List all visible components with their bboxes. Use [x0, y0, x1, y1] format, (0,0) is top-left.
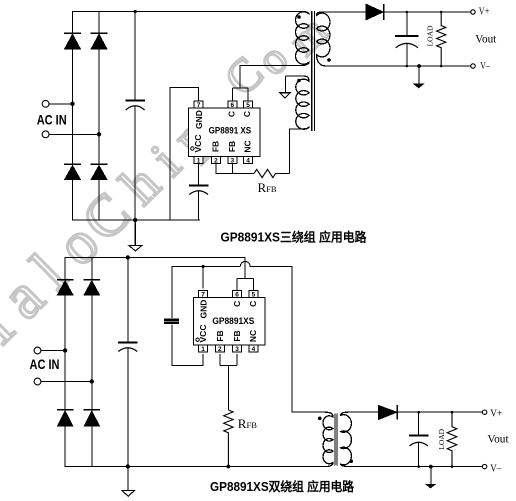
wire bridge right branch	[91, 258, 93, 467]
transformer T1 core	[312, 11, 315, 131]
wire bridge left branch	[72, 12, 74, 221]
wire AC upper	[49, 103, 73, 105]
AC input terminal lower	[42, 131, 49, 138]
AC input terminal lower (bottom circuit)	[34, 378, 41, 385]
node junction AC upper	[70, 102, 74, 106]
resistor RFB (bottom circuit)	[224, 410, 233, 467]
svg-text:NC: NC	[243, 140, 253, 152]
wire bridge right branch	[98, 12, 100, 221]
pin 7 (U2)	[199, 290, 208, 298]
svg-text:Vout: Vout	[475, 32, 497, 46]
node dot secondary polarity	[327, 58, 331, 62]
capacitor C3 output	[395, 12, 418, 66]
pin 2 (U2)	[215, 345, 224, 353]
svg-text:5: 5	[252, 291, 256, 298]
ground output (filled)	[414, 64, 423, 88]
pin1 marker circle	[191, 147, 194, 150]
pin 2	[211, 157, 220, 165]
wire GND pin7 (bottom)	[202, 267, 204, 289]
wire pins 5,6 junction (U2)	[237, 278, 253, 290]
capacitor C1 bulk filter	[125, 12, 145, 221]
wire AC upper	[41, 350, 65, 352]
pin 7	[194, 101, 203, 109]
svg-text:4: 4	[246, 158, 250, 165]
op-amp U2 GP8891XS body	[194, 297, 265, 345]
capacitor C5 VCC loop (bottom circuit)	[164, 267, 203, 366]
wire secondary to diode (bottom)	[348, 411, 379, 413]
svg-text:6: 6	[235, 291, 239, 298]
svg-text:Vout: Vout	[487, 432, 509, 446]
svg-text:GP8891XS: GP8891XS	[212, 316, 254, 327]
node junction	[63, 348, 67, 352]
svg-text:6: 6	[230, 102, 234, 109]
diode D7 top-right bridge2	[84, 280, 100, 295]
wire bottom rail	[73, 219, 200, 221]
ground bottom (open triangle)	[122, 467, 135, 497]
node dots output (bottom circuit)	[417, 411, 420, 414]
svg-text:3: 3	[235, 346, 239, 353]
wire FB pins junction	[216, 164, 254, 174]
diode D9 bottom-right bridge2	[84, 410, 100, 426]
transformer T2 primary winding	[323, 412, 333, 466]
diode D1 top-left of bridge	[64, 33, 81, 49]
svg-text:V–: V–	[490, 462, 501, 474]
pin 3	[228, 157, 237, 165]
AC input terminal upper (bottom circuit)	[34, 347, 41, 354]
svg-text:AC IN: AC IN	[37, 112, 67, 127]
diode D2 top-right of bridge	[91, 33, 108, 49]
node dot C4 bottom	[126, 464, 130, 468]
svg-text:AC IN: AC IN	[30, 357, 60, 372]
svg-text:VCC: VCC	[193, 135, 203, 153]
svg-text:2: 2	[214, 158, 218, 165]
svg-text:7: 7	[201, 291, 205, 298]
wire FB pins to RFB (bottom)	[220, 354, 237, 410]
wire pins 5,6 to primary bottom	[232, 66, 303, 102]
svg-text:FB: FB	[232, 330, 242, 341]
node dots output bottom	[406, 65, 409, 68]
node dots output top	[406, 11, 409, 14]
svg-text:GP8891XS三绕组 应用电路: GP8891XS三绕组 应用电路	[221, 230, 367, 245]
pin 3 (U2)	[233, 345, 242, 353]
resistor RFB (top circuit)	[254, 169, 289, 177]
wire top rail	[73, 11, 302, 13]
svg-text:5: 5	[246, 102, 250, 109]
svg-text:C: C	[242, 111, 252, 117]
ground output filled (bottom)	[426, 465, 435, 488]
svg-text:GP8891XS双绕组 应用电路: GP8891XS双绕组 应用电路	[210, 479, 354, 494]
node dot C1 bottom rail	[133, 218, 137, 222]
wire bottom rail	[65, 466, 326, 468]
transformer T2 secondary winding	[341, 412, 352, 466]
svg-text:V+: V+	[479, 5, 490, 17]
diode D8 bottom-left bridge2	[57, 410, 73, 426]
node dot RFB bottom	[227, 465, 231, 469]
pin 5	[244, 101, 253, 109]
wire bottom output rail (bottom circuit)	[348, 466, 482, 468]
svg-text:GND: GND	[194, 110, 204, 129]
svg-text:FB: FB	[227, 141, 237, 152]
ground mid (open triangle)	[129, 220, 142, 251]
terminal V+ (bottom)	[482, 410, 486, 414]
pin 1 (U2)	[199, 345, 208, 353]
wire RFB to aux winding	[289, 129, 301, 174]
terminal V-	[471, 64, 475, 68]
node junction AC lower	[97, 132, 101, 136]
svg-text:C: C	[248, 301, 258, 307]
svg-text:2: 2	[218, 346, 222, 353]
capacitor C2 VCC bypass	[189, 164, 209, 221]
node dot aux polarity	[297, 79, 301, 83]
node dot primary polarity	[297, 15, 301, 19]
capacitor C6 output (bottom)	[409, 412, 428, 466]
svg-text:FB: FB	[215, 330, 225, 341]
wire diode to V+ (bottom)	[397, 411, 482, 413]
pin 6	[228, 101, 237, 109]
capacitor C4 bulk filter (bottom)	[118, 258, 138, 467]
svg-text:LOAD: LOAD	[426, 25, 435, 46]
wire top rail bottom circuit	[65, 258, 245, 279]
wire GND net with hop	[172, 262, 292, 267]
wire AC lower	[41, 381, 92, 383]
transformer T2 core	[335, 414, 337, 466]
pin 6 (U2)	[233, 290, 242, 298]
wire GND pin7 to bottom rail	[170, 88, 199, 221]
diode D4 bottom-right of bridge	[91, 164, 108, 179]
node dot T2 primary polarity	[318, 417, 322, 421]
svg-text:GND: GND	[199, 300, 209, 319]
terminal V- (bottom)	[482, 464, 486, 468]
svg-text:4: 4	[252, 346, 256, 353]
pin 5 (U2)	[249, 290, 258, 298]
svg-text:V+: V+	[490, 408, 502, 420]
transformer T1 secondary winding	[317, 12, 330, 66]
svg-text:C: C	[232, 301, 242, 307]
svg-text:NC: NC	[248, 330, 258, 342]
node dot C4 top	[126, 255, 130, 259]
transformer T1 primary winding	[296, 12, 309, 66]
pin1 marker circle (U2)	[196, 338, 199, 341]
svg-text:1: 1	[201, 346, 205, 353]
svg-text:LOAD: LOAD	[437, 428, 446, 449]
op-amp U1 GP8891XS body	[189, 108, 261, 157]
terminal V+	[471, 10, 475, 14]
resistor LOAD (top)	[437, 12, 446, 66]
svg-text:V–: V–	[480, 60, 490, 72]
wire bottom output rail	[326, 65, 471, 67]
node dot C1 top	[134, 10, 137, 13]
diode D6 top-left bridge2	[57, 280, 73, 295]
aux ground arrow	[280, 76, 290, 98]
AC input terminal upper	[42, 100, 49, 107]
resistor LOAD (bottom)	[447, 412, 457, 466]
diode D10 output (bottom)	[379, 405, 398, 420]
node junction	[90, 379, 94, 383]
svg-text:3: 3	[230, 158, 234, 165]
svg-text:1: 1	[197, 158, 201, 165]
svg-text:7: 7	[197, 102, 201, 109]
svg-text:FB: FB	[211, 141, 221, 152]
node dot pin7 net	[202, 265, 205, 268]
wire primary feed (bottom)	[292, 267, 325, 413]
pin 4	[244, 157, 253, 165]
node dot T2 secondary polarity	[349, 459, 353, 463]
svg-text:GP8891 XS: GP8891 XS	[209, 126, 252, 137]
wire diode to V+	[384, 11, 471, 13]
wire AC lower	[49, 133, 99, 135]
transformer T1 aux winding	[286, 76, 310, 129]
svg-text:C: C	[227, 111, 237, 117]
pin 4 (U2)	[249, 345, 258, 353]
wire secondary to diode	[322, 11, 366, 13]
diode D3 bottom-left of bridge	[64, 164, 81, 179]
pin 1	[194, 157, 203, 165]
wire bridge left branch	[64, 258, 66, 467]
diode D5 output	[366, 4, 384, 20]
